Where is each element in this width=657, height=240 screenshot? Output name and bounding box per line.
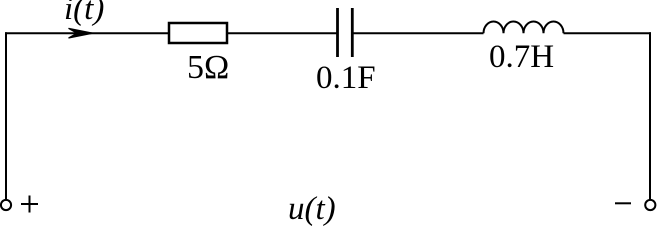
svg-text:0.7H: 0.7H — [489, 39, 554, 75]
svg-text:5Ω: 5Ω — [187, 49, 229, 86]
terminal (left, open circle) — [1, 200, 11, 210]
wire (inductor to right corner) — [564, 32, 652, 34]
resistor R 5Ω — [169, 23, 227, 43]
terminal (right, open circle) — [645, 200, 655, 210]
current arrow — [69, 28, 94, 38]
svg-text:u(t): u(t) — [288, 191, 336, 227]
wire (capacitor to inductor) — [352, 32, 483, 34]
polarity + — [21, 196, 38, 213]
wire (left vertical) — [5, 32, 7, 199]
capacitor C 0.1F — [338, 8, 353, 57]
polarity − — [615, 202, 631, 204]
svg-text:0.1F: 0.1F — [316, 60, 376, 96]
wire (resistor to capacitor) — [227, 32, 338, 34]
wire (top segment from left corner to resistor) — [5, 32, 169, 34]
inductor L 0.7H — [484, 22, 564, 34]
wire (right vertical) — [649, 32, 651, 199]
svg-text:i(t): i(t) — [64, 0, 104, 27]
